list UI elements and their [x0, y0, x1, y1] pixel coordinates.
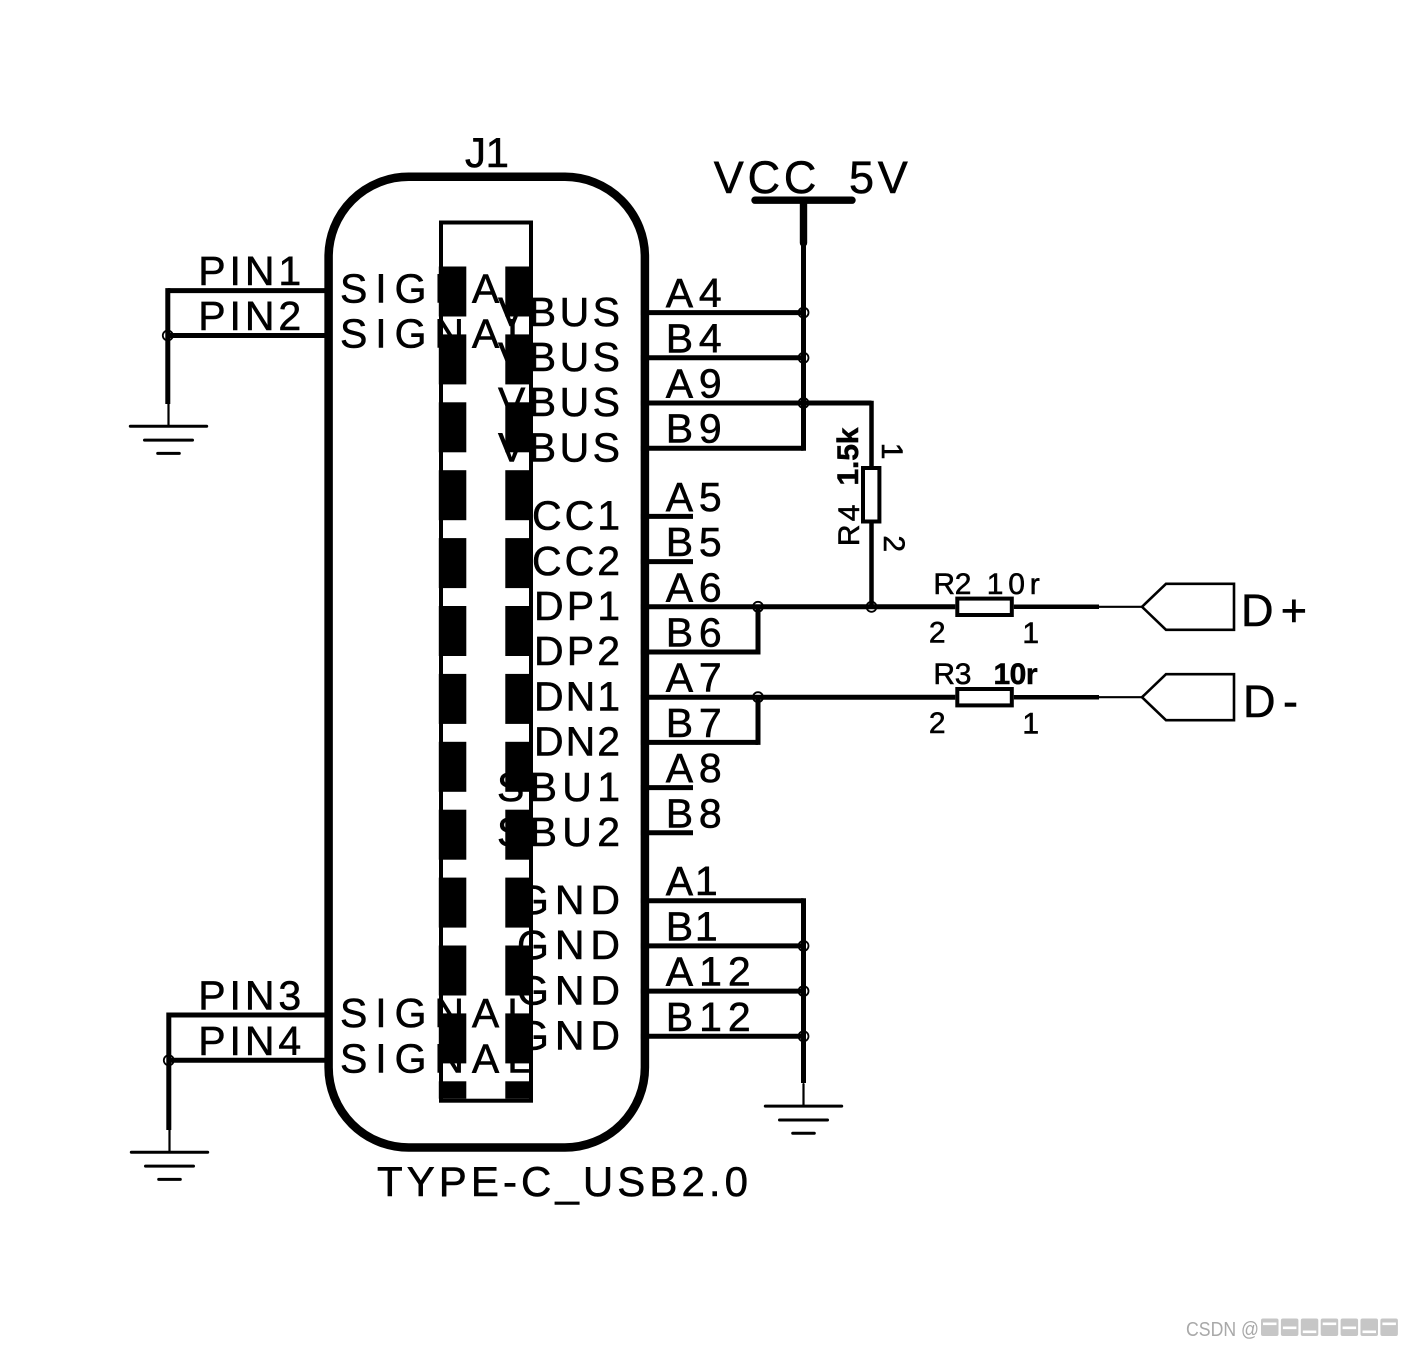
ground symbol (PIN3/PIN4) — [131, 1130, 207, 1179]
svg-text:2: 2 — [929, 616, 946, 649]
wire A9 branch to R4 — [804, 401, 872, 406]
wire pin B1 GND — [641, 943, 804, 948]
wire pin B9 VBUS — [641, 446, 804, 451]
svg-text:CSDN @: CSDN @ — [1186, 1319, 1259, 1341]
connector contact pads — [439, 267, 533, 1099]
svg-text:10r: 10r — [994, 658, 1038, 691]
resistor R2 body — [957, 599, 1012, 615]
svg-text:PIN2: PIN2 — [198, 293, 301, 339]
junction D+ B6 — [753, 602, 763, 612]
svg-text:1: 1 — [875, 443, 908, 460]
junction VBUS A9 — [799, 398, 809, 408]
wire PIN3/PIN4 vertical — [166, 1013, 171, 1131]
wire D- port lead thin — [1099, 696, 1142, 698]
pin A5 stub wire — [641, 514, 693, 519]
svg-text:1.5k: 1.5k — [832, 427, 865, 485]
pin B8 stub wire — [641, 830, 693, 835]
svg-text:A12: A12 — [666, 949, 751, 995]
wire D- net (A7 to R3) — [641, 695, 955, 700]
ground symbol (PIN1/PIN2) — [130, 404, 206, 453]
svg-text:PIN1: PIN1 — [198, 248, 301, 294]
svg-text:1: 1 — [1022, 617, 1039, 650]
svg-text:PIN3: PIN3 — [198, 973, 301, 1019]
svg-text:VBUS: VBUS — [498, 334, 620, 380]
svg-text:10r: 10r — [987, 568, 1040, 601]
wire PIN4 to net — [169, 1058, 326, 1063]
wire pin A4 VBUS — [641, 310, 804, 315]
wire R3 to D- port — [1014, 695, 1099, 700]
junction PIN2 — [163, 331, 173, 341]
wire pin B12 GND — [641, 1034, 804, 1039]
wire B6 to A6 vertical — [756, 607, 761, 655]
junction GND B1 — [799, 941, 809, 951]
svg-text:VCC_5V: VCC_5V — [714, 152, 908, 203]
svg-text:DN2: DN2 — [534, 719, 620, 765]
wire pin B4 VBUS — [641, 355, 804, 360]
svg-text:CC1: CC1 — [532, 493, 620, 539]
svg-text:D-: D- — [1243, 676, 1298, 727]
junction D+ R4 — [867, 602, 877, 612]
connector inner body rectangle — [441, 223, 531, 1101]
wire PIN3 to net — [169, 1013, 326, 1018]
wire pin A1 GND — [641, 898, 804, 903]
svg-text:A1: A1 — [666, 858, 718, 904]
svg-text:B12: B12 — [666, 994, 751, 1040]
wire B7 to A7 vertical — [756, 697, 761, 745]
svg-text:GND: GND — [517, 967, 620, 1013]
svg-text:R4: R4 — [833, 504, 866, 546]
svg-text:DP2: DP2 — [534, 628, 620, 674]
svg-text:DP1: DP1 — [534, 583, 620, 629]
power symbol VCC_5V bar — [755, 196, 852, 203]
svg-text:2: 2 — [929, 707, 946, 740]
wire D+ port lead thin — [1099, 606, 1142, 608]
svg-text:R2: R2 — [933, 568, 971, 601]
svg-text:GND: GND — [517, 877, 620, 923]
svg-text:DN1: DN1 — [534, 673, 620, 719]
junction GND A12 — [799, 986, 809, 996]
wire PIN2 to net — [168, 333, 326, 338]
wire VCC rail vertical — [801, 243, 806, 451]
pin B5 stub wire — [641, 559, 693, 564]
junction VBUS A4 — [799, 308, 809, 318]
pin A8 stub wire — [641, 785, 693, 790]
resistor R4 body — [863, 468, 879, 522]
svg-text:J1: J1 — [465, 129, 509, 176]
svg-text:1: 1 — [1022, 708, 1039, 741]
wire pin A12 GND — [641, 989, 804, 994]
svg-text:VBUS: VBUS — [498, 289, 620, 335]
port D- pentagon — [1142, 674, 1234, 720]
svg-text:CC2: CC2 — [532, 538, 620, 584]
svg-text:VBUS: VBUS — [498, 379, 620, 425]
connector J1 body outline — [329, 177, 645, 1148]
wire PIN1/PIN2 vertical — [165, 288, 170, 404]
wire pin A9 VBUS — [641, 401, 872, 406]
wire B7 stub — [641, 740, 758, 745]
ground symbol (GND pins) — [765, 1084, 841, 1133]
wire PIN1 to net — [168, 288, 326, 293]
wire R2 to D+ port — [1014, 605, 1099, 610]
resistor R3 body — [957, 689, 1012, 705]
wire D+ net (A6 to R2) — [641, 604, 955, 609]
svg-text:PIN4: PIN4 — [198, 1018, 301, 1064]
wire B6 stub — [641, 650, 758, 655]
svg-text:VBUS: VBUS — [498, 424, 620, 470]
junction GND B12 — [799, 1031, 809, 1041]
wire R4 pin 2 lead — [869, 524, 874, 607]
wire R4 pin 1 lead — [869, 401, 874, 466]
junction VBUS B4 — [799, 353, 809, 363]
svg-text:2: 2 — [877, 535, 910, 552]
svg-text:B1: B1 — [666, 903, 718, 949]
junction PIN4 — [164, 1055, 174, 1065]
svg-text:R3: R3 — [933, 658, 971, 691]
svg-text:GND: GND — [517, 922, 620, 968]
svg-text:GND: GND — [517, 1013, 620, 1059]
junction D- B7 — [753, 692, 763, 702]
wire GND rail vertical — [801, 898, 806, 1083]
port D+ pentagon — [1142, 584, 1234, 630]
svg-text:TYPE-C_USB2.0: TYPE-C_USB2.0 — [377, 1158, 748, 1205]
